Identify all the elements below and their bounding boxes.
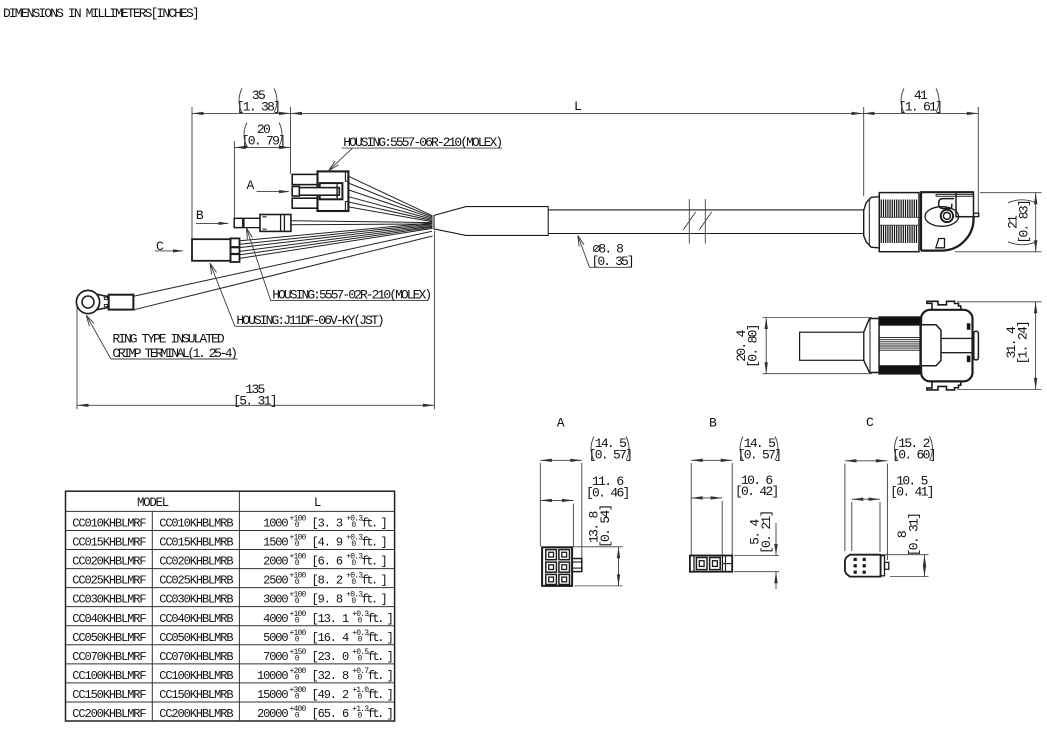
svg-text:[0. 35]: [0. 35] bbox=[592, 254, 633, 269]
svg-text:[1. 61]: [1. 61] bbox=[899, 99, 942, 114]
svg-text:CC010KHBLMRF: CC010KHBLMRF bbox=[72, 517, 146, 531]
svg-text:CC025KHBLMRF: CC025KHBLMRF bbox=[72, 574, 146, 588]
svg-text:CC015KHBLMRF: CC015KHBLMRF bbox=[72, 536, 146, 550]
svg-text:CC100KHBLMRF: CC100KHBLMRF bbox=[72, 669, 146, 683]
svg-text:2500: 2500 bbox=[263, 574, 288, 588]
svg-text:L: L bbox=[314, 496, 321, 510]
svg-text:ft. ]: ft. ] bbox=[368, 669, 392, 683]
svg-text:ft. ]: ft. ] bbox=[368, 650, 392, 664]
svg-text:CC050KHBLMRB: CC050KHBLMRB bbox=[159, 631, 233, 645]
svg-text:[5. 31]: [5. 31] bbox=[233, 393, 276, 408]
svg-text:20000: 20000 bbox=[257, 707, 288, 721]
svg-text:CC150KHBLMRB: CC150KHBLMRB bbox=[159, 688, 233, 702]
svg-text:CC200KHBLMRB: CC200KHBLMRB bbox=[159, 707, 233, 721]
svg-text:MODEL: MODEL bbox=[137, 496, 169, 510]
svg-text:ft. ]: ft. ] bbox=[368, 631, 392, 645]
svg-text:CC030KHBLMRF: CC030KHBLMRF bbox=[72, 593, 146, 607]
svg-text:ft. ]: ft. ] bbox=[362, 593, 386, 607]
svg-text:1500: 1500 bbox=[263, 536, 288, 550]
svg-text:ft. ]: ft. ] bbox=[362, 517, 386, 531]
svg-text:CC020KHBLMRF: CC020KHBLMRF bbox=[72, 555, 146, 569]
svg-text:CC040KHBLMRB: CC040KHBLMRB bbox=[159, 612, 233, 626]
svg-text:CC025KHBLMRB: CC025KHBLMRB bbox=[159, 574, 233, 588]
svg-text:CC050KHBLMRF: CC050KHBLMRF bbox=[72, 631, 146, 645]
svg-text:[4. 9: [4. 9 bbox=[312, 536, 343, 550]
svg-text:HOUSING:J11DF-06V-KY(JST): HOUSING:J11DF-06V-KY(JST) bbox=[236, 313, 382, 328]
svg-text:[0. 83]: [0. 83] bbox=[1017, 201, 1032, 244]
svg-text:[0. 31]: [0. 31] bbox=[907, 514, 922, 557]
svg-text:CC010KHBLMRB: CC010KHBLMRB bbox=[159, 517, 233, 531]
svg-text:[0. 21]: [0. 21] bbox=[759, 511, 774, 554]
svg-text:[13. 1: [13. 1 bbox=[312, 612, 350, 626]
svg-text:CC030KHBLMRB: CC030KHBLMRB bbox=[159, 593, 233, 607]
svg-text:10000: 10000 bbox=[257, 669, 288, 683]
svg-text:[0. 80]: [0. 80] bbox=[746, 325, 761, 368]
svg-text:5000: 5000 bbox=[263, 631, 288, 645]
svg-text:[0. 79]: [0. 79] bbox=[242, 133, 285, 148]
svg-text:[8. 2: [8. 2 bbox=[312, 574, 343, 588]
svg-text:2000: 2000 bbox=[263, 555, 288, 569]
svg-text:[65. 6: [65. 6 bbox=[312, 707, 350, 721]
svg-text:[0. 46]: [0. 46] bbox=[586, 485, 629, 500]
svg-text:CC070KHBLMRB: CC070KHBLMRB bbox=[159, 650, 233, 664]
svg-text:[0. 41]: [0. 41] bbox=[890, 484, 933, 499]
svg-text:CC150KHBLMRF: CC150KHBLMRF bbox=[72, 688, 146, 702]
svg-text:[23. 0: [23. 0 bbox=[312, 650, 350, 664]
svg-text:[32. 8: [32. 8 bbox=[312, 669, 350, 683]
svg-text:ft. ]: ft. ] bbox=[368, 688, 392, 702]
svg-text:ft. ]: ft. ] bbox=[368, 612, 392, 626]
svg-text:CC015KHBLMRB: CC015KHBLMRB bbox=[159, 536, 233, 550]
svg-text:ft. ]: ft. ] bbox=[362, 574, 386, 588]
svg-text:[16. 4: [16. 4 bbox=[312, 631, 350, 645]
svg-text:3000: 3000 bbox=[263, 593, 288, 607]
svg-text:ft. ]: ft. ] bbox=[368, 707, 392, 721]
svg-text:CC020KHBLMRB: CC020KHBLMRB bbox=[159, 555, 233, 569]
svg-text:ft. ]: ft. ] bbox=[362, 555, 386, 569]
svg-text:[0. 42]: [0. 42] bbox=[735, 484, 778, 499]
svg-text:[3. 3: [3. 3 bbox=[312, 517, 343, 531]
svg-text:[1. 38]: [1. 38] bbox=[237, 99, 280, 114]
svg-text:[49. 2: [49. 2 bbox=[312, 688, 350, 702]
svg-text:CC100KHBLMRB: CC100KHBLMRB bbox=[159, 669, 233, 683]
svg-text:15000: 15000 bbox=[257, 688, 288, 702]
svg-text:DIMENSIONS IN MILLIMETERS[INCH: DIMENSIONS IN MILLIMETERS[INCHES] bbox=[3, 6, 198, 21]
svg-text:RING TYPE INSULATED: RING TYPE INSULATED bbox=[112, 331, 224, 346]
svg-text:[0. 57]: [0. 57] bbox=[589, 447, 632, 462]
svg-text:1000: 1000 bbox=[263, 517, 288, 531]
svg-text:CC200KHBLMRF: CC200KHBLMRF bbox=[72, 707, 146, 721]
svg-text:4000: 4000 bbox=[263, 612, 288, 626]
svg-text:[0. 57]: [0. 57] bbox=[738, 447, 781, 462]
svg-text:[1. 24]: [1. 24] bbox=[1016, 322, 1031, 365]
svg-text:[0. 60]: [0. 60] bbox=[892, 447, 935, 462]
svg-text:7000: 7000 bbox=[263, 650, 288, 664]
svg-text:CC040KHBLMRF: CC040KHBLMRF bbox=[72, 612, 146, 626]
svg-text:ft. ]: ft. ] bbox=[362, 536, 386, 550]
svg-text:[6. 6: [6. 6 bbox=[312, 555, 343, 569]
svg-text:[0. 54]: [0. 54] bbox=[598, 505, 613, 548]
svg-text:[9. 8: [9. 8 bbox=[312, 593, 343, 607]
svg-text:CC070KHBLMRF: CC070KHBLMRF bbox=[72, 650, 146, 664]
